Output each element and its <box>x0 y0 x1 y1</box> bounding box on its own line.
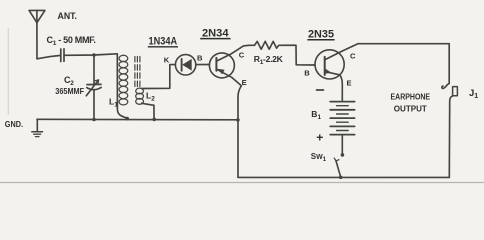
capacitor C1 <box>61 49 64 62</box>
svg-text:B: B <box>197 54 203 63</box>
svg-text:2N35: 2N35 <box>308 29 334 41</box>
wire C2 branch lower <box>93 91 95 120</box>
battery B1 <box>330 102 354 135</box>
svg-text:K: K <box>164 56 170 65</box>
node: L2 ground junction <box>152 118 156 122</box>
wire antenna to C1 <box>37 56 60 59</box>
svg-text:C: C <box>239 51 245 60</box>
wire C1 to L1 top <box>65 54 117 56</box>
antenna ANT. <box>29 10 45 58</box>
wire collector to output loop <box>358 44 449 84</box>
node: C2 tap junction <box>92 53 96 57</box>
inductor L2 <box>136 65 176 120</box>
svg-text:B: B <box>304 69 310 78</box>
label 2N34 <box>200 27 230 39</box>
diode 1N34A <box>175 55 209 75</box>
label 2N35 <box>307 29 334 41</box>
battery B1 minus sign <box>317 89 324 91</box>
svg-text:+: + <box>316 131 323 145</box>
svg-text:1N34A: 1N34A <box>149 35 178 47</box>
transistor Q2 2N35 <box>315 44 358 101</box>
node: C2 ground junction <box>92 118 96 122</box>
label 1N34A <box>148 35 178 47</box>
faint page-edge line bottom <box>0 182 484 184</box>
svg-text:E: E <box>347 79 352 88</box>
svg-text:365MMF: 365MMF <box>55 86 84 96</box>
wire C2 branch upper <box>93 55 95 84</box>
faint page-edge line left <box>7 28 9 115</box>
transistor Q1 2N34 <box>209 45 248 177</box>
ground symbol <box>32 119 43 136</box>
svg-text:GND.: GND. <box>5 120 23 129</box>
bottom wire <box>238 176 449 178</box>
node: L1 ground junction <box>125 117 129 121</box>
switch SW1 <box>334 153 344 179</box>
svg-text:ANT.: ANT. <box>58 11 78 22</box>
resistor R1 2.2K <box>249 41 316 65</box>
ground wire <box>37 118 238 121</box>
svg-text:C: C <box>350 52 356 61</box>
inductor L1 <box>117 54 128 118</box>
svg-text:EARPHONE: EARPHONE <box>391 91 431 101</box>
node: emitter/ground junction <box>236 118 240 122</box>
jack J1 <box>442 84 458 178</box>
svg-text:E: E <box>242 78 247 87</box>
wire battery to switch <box>341 135 343 155</box>
transformer core <box>135 57 140 88</box>
svg-text:OUTPUT: OUTPUT <box>394 104 428 114</box>
svg-text:2N34: 2N34 <box>202 27 229 39</box>
capacitor C2 (variable) <box>86 80 101 96</box>
